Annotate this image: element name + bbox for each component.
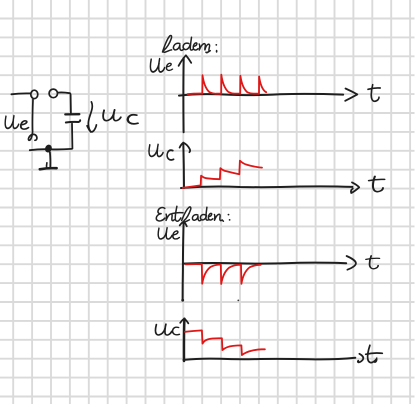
stray ink dot	[237, 300, 239, 302]
label u_C (circuit capacitor voltage)	[103, 110, 138, 124]
plot1 t axis arrowhead	[345, 89, 357, 101]
plot1 u_e waveform (red charging pulses)	[188, 75, 267, 95]
u_C measuring arrow (integral-shaped, down)	[88, 102, 96, 132]
ground bar	[40, 168, 57, 169]
plot1 t axis horizontal	[179, 94, 343, 96]
terminal J2 (right input circle)	[49, 89, 57, 98]
wire capacitor bottom lead	[71, 124, 73, 149]
plot3 u_e axis vertical with arrow	[183, 222, 184, 301]
plot2 axis label t	[369, 176, 385, 191]
plot3 axis label u_e	[158, 228, 179, 239]
capacitor C bottom plate	[66, 120, 80, 122]
plot1 axis label u_e	[150, 59, 172, 72]
wire input left lead	[11, 92, 30, 95]
title Entladen:	[156, 206, 230, 222]
plot1 u_e axis vertical with arrow	[182, 58, 184, 132]
plot3 axis label t	[366, 256, 379, 269]
capacitor C top plate	[65, 113, 79, 116]
u_e source arrow (down, hooked tip)	[28, 99, 36, 140]
label u_e (circuit input voltage)	[5, 116, 28, 129]
plot4 t axis horizontal	[184, 358, 356, 360]
ground stem	[49, 152, 51, 167]
plot4 axis label t	[366, 345, 383, 362]
plot3 u_e waveform (red discharging pulses)	[186, 264, 261, 284]
plot4 t axis arrowhead (curled)	[358, 354, 363, 363]
plot3 t axis arrowhead	[347, 256, 356, 270]
plot2 axis label u_C	[149, 144, 174, 160]
junction node (scribbled dot)	[45, 145, 52, 152]
plot2 t axis horizontal	[181, 186, 352, 188]
terminal J1 (left input circle)	[31, 90, 38, 98]
wire bottom return	[30, 149, 72, 150]
title Laden:	[163, 35, 218, 52]
wire from J2 to capacitor top	[58, 92, 71, 113]
plot2 u_C waveform (red charging staircase)	[183, 161, 262, 188]
plot4 axis label u_C	[155, 324, 179, 335]
plot2 u_C axis vertical with arrow	[182, 143, 185, 188]
plot3 t axis horizontal	[183, 262, 346, 265]
plot4 u_C waveform (red discharging staircase)	[185, 330, 265, 355]
plot1 axis label t	[368, 85, 380, 102]
plot4 u_C axis vertical with arrow	[183, 319, 186, 361]
plot2 t axis arrowhead (curled)	[351, 182, 359, 193]
